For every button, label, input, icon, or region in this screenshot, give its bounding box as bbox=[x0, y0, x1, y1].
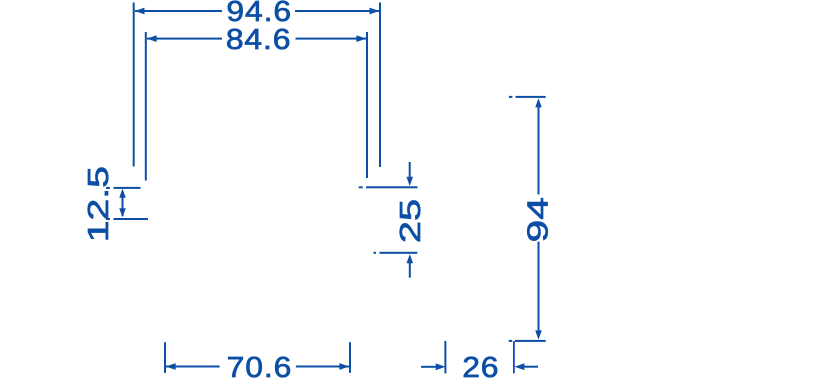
dimension 94: top tick line bbox=[516, 96, 546, 98]
dimension 25: bottom tick dots bbox=[374, 252, 377, 254]
dimension 12.5: bottom tick line bbox=[114, 218, 149, 220]
dimension 94.6: right dim line segment bbox=[295, 10, 379, 12]
dimension 94.6: right arrowhead bbox=[370, 8, 380, 15]
svg-text:26: 26 bbox=[462, 351, 499, 378]
dimension 12.5: top tick dash bbox=[106, 187, 110, 189]
svg-text:94: 94 bbox=[522, 197, 554, 242]
dimension 84.6: left arrowhead bbox=[147, 35, 157, 42]
dimension 26: left tail line bbox=[421, 366, 437, 368]
dimension 26: left arrowhead (pointing right) bbox=[436, 363, 446, 370]
dimension 25: upper dim line bbox=[409, 162, 411, 179]
svg-text:84.6: 84.6 bbox=[226, 23, 292, 55]
dimension 25: top tick line bbox=[366, 186, 418, 188]
dimension 94: top tick dash bbox=[509, 96, 513, 98]
dimension 94.6: right extension line bbox=[379, 3, 381, 168]
dimension 25: upper down arrowhead bbox=[406, 177, 413, 186]
dimension 25: lower dim line bbox=[409, 263, 411, 278]
dimension 94: upper dim line bbox=[538, 107, 540, 195]
dimension 84.6: left dim line segment bbox=[147, 38, 222, 40]
dimension 84.6: left extension line bbox=[145, 32, 147, 181]
dimension 94: bottom tick line bbox=[515, 340, 546, 342]
dimension 94: up arrowhead bbox=[535, 98, 542, 107]
dimension 70.6: right extension line bbox=[349, 342, 351, 373]
dimension 12.5: bottom tick dash bbox=[106, 218, 110, 220]
dimension 94.6: left extension line bbox=[133, 3, 135, 167]
dimension 70.6: left arrowhead bbox=[166, 363, 176, 370]
dimension 70.6: right arrowhead bbox=[339, 363, 349, 370]
dimension 25: top tick dash bbox=[359, 186, 363, 188]
dimension 26: right arrowhead (pointing left) bbox=[515, 363, 525, 370]
dimension 26: right tail line bbox=[524, 366, 538, 368]
dimension 12.5: up arrowhead bbox=[119, 189, 126, 198]
svg-text:25: 25 bbox=[395, 199, 427, 243]
dimension 84.6: right extension line bbox=[366, 32, 368, 178]
dimension 25: bottom tick line bbox=[380, 252, 418, 254]
dimension 70.6: right dim line segment bbox=[296, 366, 349, 368]
dimension 94: lower dim line bbox=[538, 242, 540, 332]
dimension 94: down arrowhead bbox=[535, 330, 542, 339]
dimension 12.5: down arrowhead bbox=[119, 208, 126, 217]
dimension 26: right extension line (bright) bbox=[513, 341, 515, 373]
dimension 26: left extension line bbox=[444, 341, 446, 373]
dimension 94.6: left dim line segment bbox=[135, 10, 222, 12]
dimension 70.6: left extension line bbox=[164, 342, 166, 373]
dimension 25: lower up arrowhead bbox=[407, 254, 414, 263]
dimension 94: bottom tick dash bbox=[509, 340, 513, 342]
dimension 94.6: left arrowhead bbox=[135, 8, 145, 15]
svg-text:12.5: 12.5 bbox=[83, 166, 115, 242]
dimension 84.6: right arrowhead bbox=[356, 35, 366, 42]
svg-text:70.6: 70.6 bbox=[227, 351, 293, 378]
dimension 84.6: right dim line segment bbox=[296, 38, 367, 40]
dimension 12.5: top tick line bbox=[114, 187, 141, 189]
dimension 70.6: left dim line segment bbox=[166, 366, 220, 368]
dimension 12.5: dim line bbox=[122, 191, 124, 216]
